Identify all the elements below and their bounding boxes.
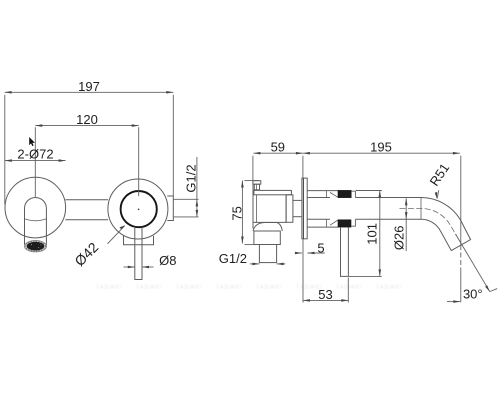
svg-text:ⒸAQUANET: ⒸAQUANET xyxy=(176,283,203,291)
spout tube front xyxy=(25,197,47,244)
handle rod side xyxy=(341,227,349,276)
tube cross arc xyxy=(25,219,47,221)
svg-text:Ø8: Ø8 xyxy=(159,253,176,268)
top flange xyxy=(254,190,292,194)
dim 120 xyxy=(35,125,138,127)
dim G1/2 front xyxy=(196,157,198,217)
dim 75 xyxy=(241,181,243,244)
center dot xyxy=(138,209,140,211)
svg-text:59: 59 xyxy=(271,139,285,154)
watermark row xyxy=(96,283,403,291)
75 xyxy=(241,181,244,188)
bend inner arc xyxy=(421,219,440,230)
Ø26 xyxy=(405,198,408,205)
svg-text:ⒸAQUANET: ⒸAQUANET xyxy=(216,283,243,291)
knurled nut bottom (hatched) xyxy=(338,220,351,227)
svg-text:30°: 30° xyxy=(463,286,483,301)
svg-text:ⒸAQUANET: ⒸAQUANET xyxy=(336,283,363,291)
sleeve bottom lines xyxy=(307,226,338,228)
svg-text:197: 197 xyxy=(78,79,100,94)
svg-text:120: 120 xyxy=(76,112,98,127)
Ø8 arrows pointing inward xyxy=(128,266,135,269)
59 xyxy=(253,152,260,155)
dim 59 xyxy=(253,152,303,154)
G1/2 nipple xyxy=(259,245,276,263)
inlet fitting top xyxy=(253,181,261,185)
cartridge xyxy=(286,195,293,223)
G1/2 side xyxy=(252,263,259,266)
dim G1/2 side xyxy=(250,263,260,265)
30 deg bottom arrow tail xyxy=(447,301,460,303)
mouse cursor xyxy=(29,137,35,146)
dim Ø8 xyxy=(124,266,135,268)
right escutcheon circle xyxy=(108,179,168,239)
aerator xyxy=(25,241,47,252)
dim 195 xyxy=(303,152,460,154)
pipe end vertical xyxy=(420,198,422,220)
dim 53 xyxy=(303,299,348,301)
svg-text:75: 75 xyxy=(230,206,245,220)
svg-text:Ø26: Ø26 xyxy=(392,226,407,251)
bend outer arc xyxy=(421,198,460,220)
dim 5 xyxy=(296,252,302,254)
G1/2 stub front xyxy=(167,196,173,221)
body left edge xyxy=(252,184,254,229)
svg-text:G1/2: G1/2 xyxy=(219,251,247,266)
handle base circle (bold) xyxy=(121,191,157,227)
leader Ø42 xyxy=(108,226,125,244)
svg-text:ⒸAQUANET: ⒸAQUANET xyxy=(136,283,163,291)
svg-text:2-Ø72: 2-Ø72 xyxy=(17,147,53,162)
bottom dome xyxy=(253,223,282,232)
svg-text:ⒸAQUANET: ⒸAQUANET xyxy=(256,283,283,291)
wall plate xyxy=(302,178,307,239)
main body xyxy=(255,195,257,223)
svg-text:53: 53 xyxy=(318,287,332,302)
30 deg incline xyxy=(456,234,490,292)
R51 arrow xyxy=(435,192,438,199)
right vertical ref (195 ext + 30 deg ref) xyxy=(460,156,462,245)
SIDE VIEW xyxy=(253,178,471,276)
195 xyxy=(303,152,310,155)
spout tip xyxy=(440,220,470,251)
svg-text:ⒸAQUANET: ⒸAQUANET xyxy=(96,283,123,291)
outlet boss xyxy=(254,231,280,245)
svg-text:5: 5 xyxy=(317,241,324,256)
sleeve top lines xyxy=(307,190,338,192)
plate bottom ext xyxy=(302,239,304,303)
bracket below circle xyxy=(124,236,154,245)
svg-text:195: 195 xyxy=(370,139,392,154)
dim 101 xyxy=(379,190,381,276)
ARROWHEADS xyxy=(5,91,490,303)
handle rod front xyxy=(135,227,142,280)
G1/2 front arrows xyxy=(196,199,199,206)
spout pipe straight xyxy=(355,197,421,199)
pipe centerline dashed xyxy=(400,208,457,235)
DIMENSIONS xyxy=(5,92,498,302)
leader R51 xyxy=(437,190,439,198)
connecting bar xyxy=(65,199,108,201)
FRONT VIEW xyxy=(5,177,173,279)
101 xyxy=(379,190,382,197)
dim 2-Ø72 xyxy=(5,160,66,162)
30 deg arrows xyxy=(453,300,460,303)
dim 197 xyxy=(5,91,174,93)
knurled nut top (hatched) xyxy=(338,190,351,197)
svg-text:101: 101 xyxy=(364,223,379,245)
dim Ø26 xyxy=(405,198,407,251)
Ø42 leader arrow (pointing up-right) xyxy=(119,225,125,229)
5 xyxy=(295,252,302,255)
svg-text:G1/2: G1/2 xyxy=(183,164,198,192)
collar after nut xyxy=(351,191,355,197)
svg-text:ⒸAQUANET: ⒸAQUANET xyxy=(376,283,403,291)
53 xyxy=(303,299,310,302)
stub to plate xyxy=(293,199,302,201)
left escutcheon circle xyxy=(5,177,66,238)
